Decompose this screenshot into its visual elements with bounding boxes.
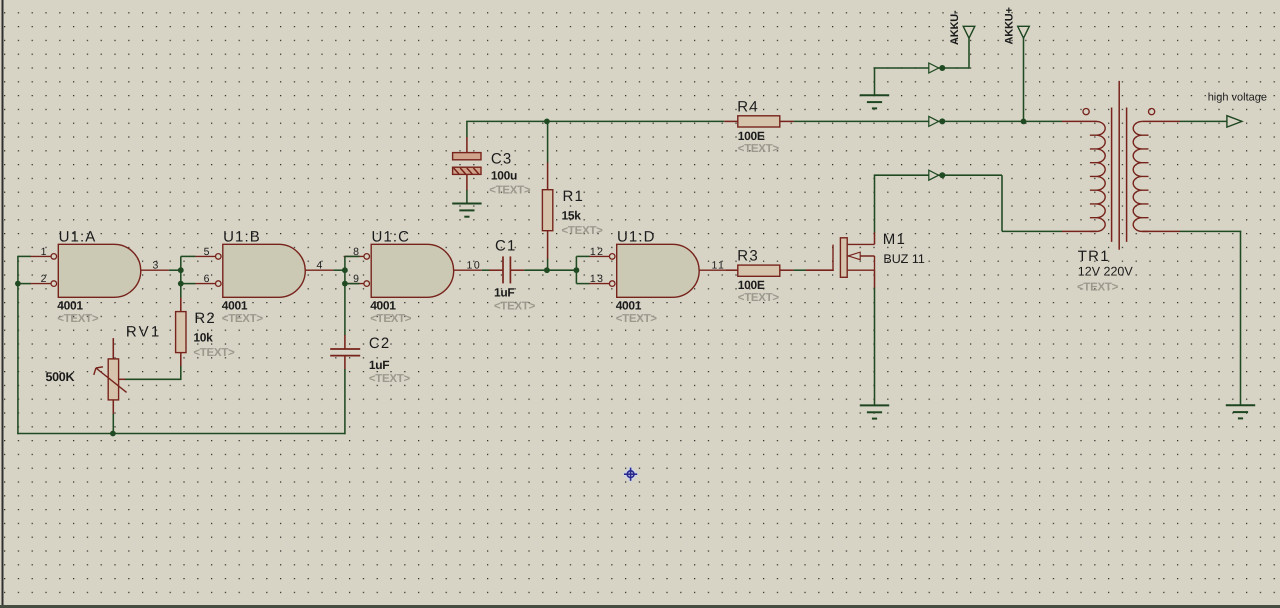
wire R2 bottom pin <box>180 353 182 367</box>
svg-text:<TEXT>: <TEXT> <box>494 301 536 313</box>
svg-text:R3: R3 <box>737 248 759 265</box>
transistor M1 body arm <box>848 255 875 257</box>
wire C2 top pin <box>344 335 346 349</box>
svg-text:<TEXT>: <TEXT> <box>222 313 264 325</box>
svg-text:<TEXT>: <TEXT> <box>193 347 235 359</box>
junction U1:B out tee <box>342 267 348 273</box>
wire TR1 primary bottom pin <box>1062 230 1097 232</box>
wire vertical node U1:D inputs <box>575 256 577 283</box>
transistor M1 body diode arrow <box>848 252 860 260</box>
transformer TR1 primary winding <box>1090 121 1105 231</box>
wire secondary to HV terminal <box>1180 120 1227 122</box>
wire U1:B output to node <box>333 269 345 271</box>
transformer TR1 secondary phase dot <box>1149 109 1155 115</box>
capacitor C2 plates <box>330 349 360 356</box>
svg-text:4001: 4001 <box>222 299 248 313</box>
wire R4 left pin <box>724 120 738 122</box>
wire C1 left pin <box>489 269 503 271</box>
wire secondary bottom horizontal <box>1180 230 1241 232</box>
wire C3 to ground <box>466 190 468 204</box>
junction U1:B pin6 tee <box>178 281 184 287</box>
junction node A (pin2 tee) <box>15 281 21 287</box>
junction U1:D input tee <box>574 267 580 273</box>
junction R1 top on rail <box>544 119 550 125</box>
svg-text:<TEXT>: <TEXT> <box>1077 282 1119 294</box>
wire R1 top to rail <box>547 121 549 162</box>
wire R1 top pin <box>547 162 549 190</box>
junction U1:C pin9 tee <box>342 281 348 287</box>
wire AKKU+ down to rail <box>1023 38 1025 121</box>
wire U1:A output to node <box>169 269 182 271</box>
wire R1 bottom pin <box>547 231 549 259</box>
ground secondary <box>1226 405 1255 418</box>
svg-text:11: 11 <box>712 259 726 271</box>
svg-text:U1:D: U1:D <box>617 229 656 246</box>
terminal AKKU- symbol <box>963 26 975 38</box>
svg-text:4001: 4001 <box>616 299 642 313</box>
transformer TR1 secondary winding <box>1133 121 1148 231</box>
potentiometer RV1 wiper arrow <box>94 367 127 393</box>
op-gate U1:C (4001 NOR) <box>344 244 482 297</box>
svg-text:<TEXT>: <TEXT> <box>738 292 780 304</box>
wire wiper horizontal <box>125 378 182 380</box>
ground on AKKU- net <box>860 95 889 108</box>
svg-text:TR1: TR1 <box>1078 248 1110 265</box>
wire M1 drain pin up <box>874 232 876 244</box>
resistor R2 <box>176 312 186 353</box>
wire left vertical bus <box>17 256 19 435</box>
svg-text:15k: 15k <box>562 209 582 223</box>
potentiometer RV1 body <box>108 359 118 400</box>
wire AKKU- down <box>968 38 970 68</box>
svg-text:C1: C1 <box>495 238 517 255</box>
wire node to U1:D pin12 <box>576 255 589 257</box>
wire M1 source to ground <box>874 288 876 406</box>
wire M1 source pin down <box>874 270 876 288</box>
svg-text:100E: 100E <box>738 278 765 292</box>
wire RV1 bottom pin <box>112 400 114 415</box>
wire C3 bottom pin <box>466 174 468 190</box>
ground below C3 <box>452 204 481 217</box>
svg-text:13: 13 <box>590 273 605 285</box>
wire C3 top pin <box>466 137 468 153</box>
svg-text:6: 6 <box>204 273 210 285</box>
wire rail R4 to transformer <box>794 120 1063 122</box>
resistor R3 <box>738 265 780 276</box>
terminal AKKU+ symbol <box>1018 26 1030 38</box>
wire RV1 top stub <box>112 338 114 359</box>
transistor M1 gate electrode <box>832 245 834 271</box>
wire net pin1 left segment <box>18 255 31 257</box>
svg-text:1: 1 <box>41 246 47 258</box>
wire net pin2 left segment <box>18 283 31 285</box>
capacitor C3 positive plate <box>453 153 481 160</box>
wire node to U1:B pin6 <box>181 283 196 285</box>
resistor R4 <box>738 116 780 127</box>
op-gate U1:B (4001 NOR) <box>195 244 333 297</box>
svg-text:1uF: 1uF <box>369 358 389 372</box>
origin marker (blue crosshair) <box>623 466 639 482</box>
wire C2 bottom to feedback run <box>344 369 346 434</box>
svg-text:10: 10 <box>467 259 482 271</box>
terminal marker on drain net <box>929 170 946 180</box>
wire M1 gate pin <box>806 269 834 271</box>
terminal marker on AKKU- net <box>929 63 946 73</box>
wire node to U1:C pin9 <box>345 283 360 285</box>
svg-text:RV1: RV1 <box>126 324 162 341</box>
wire C1 to U1:D node <box>524 269 577 271</box>
op-gate U1:A (4001 NOR) <box>31 244 169 297</box>
svg-text:<TEXT>: <TEXT> <box>370 313 412 325</box>
wire TR1 secondary bottom pin <box>1142 230 1180 232</box>
resistor R1 <box>542 190 552 231</box>
wire vertical node U1:A-out/U1:B-in <box>180 256 182 297</box>
svg-text:R4: R4 <box>737 98 759 115</box>
wire R3 to M1 gate <box>794 269 807 271</box>
wire RV1 bottom to feedback run <box>112 414 114 434</box>
svg-text:<TEXT>: <TEXT> <box>562 225 604 237</box>
transistor M1 body-source link <box>874 256 876 270</box>
svg-text:U1:A: U1:A <box>59 229 97 246</box>
op-gate U1:D (4001 NOR) <box>589 244 727 297</box>
wire drain net down <box>1001 175 1003 231</box>
terminal high voltage arrow <box>1227 116 1242 127</box>
svg-text:4: 4 <box>317 259 323 271</box>
wire U1:C output segment <box>482 269 490 271</box>
svg-text:4001: 4001 <box>57 299 83 313</box>
svg-text:<TEXT>: <TEXT> <box>616 313 658 325</box>
svg-text:<TEXT>: <TEXT> <box>369 373 411 385</box>
junction U1:A out tee <box>178 267 184 273</box>
wire node to U1:B pin5 <box>181 255 196 257</box>
wire drain net horizontal <box>874 174 1002 176</box>
svg-text:100u: 100u <box>491 168 517 182</box>
wire bottom feedback run <box>17 433 345 435</box>
svg-text:U1:B: U1:B <box>223 229 261 246</box>
junction AKKU+ on rail <box>1021 119 1027 125</box>
svg-text:1uF: 1uF <box>494 286 514 300</box>
svg-text:<TEXT>: <TEXT> <box>489 185 531 197</box>
wire node to U1:D pin13 <box>576 283 589 285</box>
wire RV1 wiper stub <box>119 378 126 380</box>
svg-text:12: 12 <box>590 246 605 258</box>
wire TR1 primary top pin <box>1062 120 1097 122</box>
capacitor C1 plates <box>503 256 510 283</box>
svg-text:3: 3 <box>153 259 159 271</box>
svg-text:<TEXT>: <TEXT> <box>57 313 99 325</box>
svg-text:500K: 500K <box>46 370 75 384</box>
svg-text:4001: 4001 <box>370 299 396 313</box>
svg-text:R1: R1 <box>563 188 585 205</box>
capacitor C3 negative plate (hatched) <box>453 167 481 174</box>
wire TR1 secondary top pin <box>1142 120 1180 122</box>
junction R1 bottom tee <box>544 267 550 273</box>
svg-text:5: 5 <box>204 246 210 258</box>
wire AKKU- horizontal <box>875 67 970 69</box>
wire U1:D out to R3 <box>726 269 738 271</box>
wire AKKU- net to ground <box>874 67 876 95</box>
svg-text:2: 2 <box>41 273 47 285</box>
wire R1 bottom to node <box>547 259 549 271</box>
svg-text:M1: M1 <box>883 231 906 248</box>
wire drain net to TR1 <box>1002 230 1062 232</box>
svg-text:C3: C3 <box>491 151 513 168</box>
wire secondary bottom down <box>1240 231 1242 405</box>
svg-text:AKKU+: AKKU+ <box>1004 7 1016 44</box>
svg-text:12V 220V: 12V 220V <box>1078 264 1134 278</box>
transformer TR1 primary phase dot <box>1083 109 1089 115</box>
junction RV1 bottom on feedback run <box>110 431 116 437</box>
svg-text:<TEXT>: <TEXT> <box>738 143 780 155</box>
transformer TR1 core <box>1112 81 1127 250</box>
wire node to U1:C pin8 <box>345 255 360 257</box>
wire rail to C3 <box>466 121 468 137</box>
ground below M1 <box>860 405 889 418</box>
svg-text:U1:C: U1:C <box>372 229 411 246</box>
transistor M1 source arm <box>848 269 875 271</box>
svg-text:BUZ 11: BUZ 11 <box>883 252 924 266</box>
sheet border left <box>2 0 4 606</box>
terminal marker on rail <box>929 116 946 126</box>
wire M1 drain to net <box>874 175 876 233</box>
wire vertical node U1:B-out/U1:C-in <box>344 256 346 335</box>
svg-text:high voltage: high voltage <box>1208 92 1267 104</box>
wire R2 bottom to wiper level <box>180 366 182 380</box>
wire R4 right pin <box>780 120 794 122</box>
wire C2 bottom pin <box>344 356 346 370</box>
wire R2 top pin <box>180 298 182 312</box>
svg-text:10k: 10k <box>193 331 213 345</box>
svg-text:C2: C2 <box>369 335 391 352</box>
svg-text:R2: R2 <box>194 310 216 327</box>
wire R3 right pin <box>780 269 794 271</box>
svg-text:AKKU-: AKKU- <box>949 10 961 45</box>
svg-text:100E: 100E <box>738 129 765 143</box>
status bar bottom <box>0 605 1280 608</box>
wire C1 right pin <box>510 269 524 271</box>
transistor M1 drain arm <box>847 243 874 245</box>
wire rail C3-corner to R4 <box>466 120 724 122</box>
transistor M1 channel bar <box>840 238 847 277</box>
